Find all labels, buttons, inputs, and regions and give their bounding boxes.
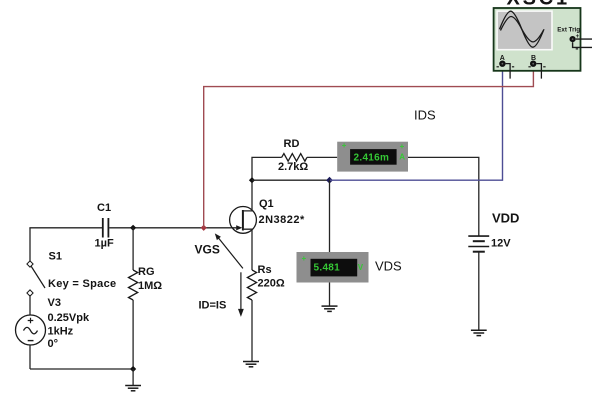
wire: V3 bottom <box>29 345 31 369</box>
svg-text:+: + <box>400 142 405 151</box>
svg-text:VDS: VDS <box>375 259 402 274</box>
svg-text:S1: S1 <box>49 251 62 263</box>
svg-text:12V: 12V <box>491 238 511 250</box>
wire: RD left vertical <box>252 157 282 180</box>
svg-text:5.481: 5.481 <box>314 263 341 274</box>
svg-text:2.416m: 2.416m <box>354 153 390 164</box>
ground (below RG) <box>125 369 141 391</box>
annotation arrow VGS <box>215 233 243 268</box>
terminal A <box>497 61 515 67</box>
svg-text:IDS: IDS <box>414 108 436 123</box>
svg-text:V: V <box>358 263 364 272</box>
svg-text:C1: C1 <box>97 202 111 214</box>
oscilloscope XSC1 <box>494 8 581 71</box>
svg-text:A: A <box>399 152 405 161</box>
annotation arrow ID=IS <box>238 272 244 317</box>
svg-text:1kHz: 1kHz <box>48 326 74 338</box>
svg-text:+: + <box>342 141 347 150</box>
svg-text:RD: RD <box>284 138 300 150</box>
svg-text:Q1: Q1 <box>259 198 274 210</box>
svg-text:Key = Space: Key = Space <box>48 278 116 290</box>
voltmeter probe VDS (5.481) <box>297 252 369 283</box>
svg-text:RG: RG <box>138 266 155 278</box>
svg-text:VGS: VGS <box>195 243 220 257</box>
wire: source lead <box>243 229 252 270</box>
ammeter probe IDS (2.416m) <box>337 141 408 171</box>
AC source V3 <box>16 315 46 345</box>
svg-text:0°: 0° <box>48 338 59 350</box>
resistor RG <box>129 228 138 369</box>
svg-text:Rs: Rs <box>258 264 272 276</box>
capacitor C1 <box>103 218 109 238</box>
svg-text:2N3822*: 2N3822* <box>259 214 306 226</box>
node: RG top junction <box>130 225 136 231</box>
svg-text:V3: V3 <box>48 297 61 309</box>
svg-text:VDD: VDD <box>492 211 519 226</box>
wire: blue node down to voltmeter <box>329 180 331 252</box>
terminal B <box>528 61 545 67</box>
resistor Rs <box>247 270 256 362</box>
svg-text:+: + <box>302 254 307 263</box>
svg-text:XSC1: XSC1 <box>507 0 570 10</box>
wire: drain lead <box>243 180 252 211</box>
svg-text:ID=IS: ID=IS <box>199 300 227 312</box>
svg-text:220Ω: 220Ω <box>258 278 285 290</box>
wire: top horizontal to C1 <box>29 227 102 229</box>
ground (below voltmeter) <box>322 306 338 311</box>
svg-text:2.7kΩ: 2.7kΩ <box>278 161 308 173</box>
node: drain junction <box>249 177 255 183</box>
node: bottom junction <box>130 366 136 372</box>
transistor Q1 (JFET) <box>230 207 257 234</box>
ground (below battery) <box>471 330 487 335</box>
wire: B negative stub <box>536 64 541 79</box>
wire: battery bottom <box>478 252 480 331</box>
wire: node to blue node <box>252 179 330 181</box>
wire: red wire gate to scope channel B <box>204 66 534 228</box>
wire: voltmeter to ground <box>329 283 331 307</box>
svg-text:1MΩ: 1MΩ <box>138 280 162 292</box>
wire: gate wire C1 to Q1 <box>109 227 236 229</box>
wire: A negative stub <box>506 64 511 79</box>
svg-text:0.25Vpk: 0.25Vpk <box>48 312 90 324</box>
wire: S1 to V3 <box>29 295 31 316</box>
wire: ammeter out to battery <box>408 157 479 236</box>
switch S1 <box>27 261 45 296</box>
wire: blue wire to scope channel A <box>330 66 503 180</box>
ground (below Rs) <box>243 362 259 367</box>
svg-text:1µF: 1µF <box>95 238 114 250</box>
battery VDD <box>468 236 489 252</box>
resistor RD <box>282 154 338 162</box>
node: gate junction (red) <box>201 225 207 231</box>
wire: left rail top (to S1) <box>29 228 31 262</box>
wire: bottom horizontal <box>30 368 133 370</box>
node: voltmeter junction (blue) <box>326 177 333 184</box>
terminal Ext Trig <box>570 34 592 49</box>
svg-text:Ext Trig: Ext Trig <box>557 27 580 34</box>
